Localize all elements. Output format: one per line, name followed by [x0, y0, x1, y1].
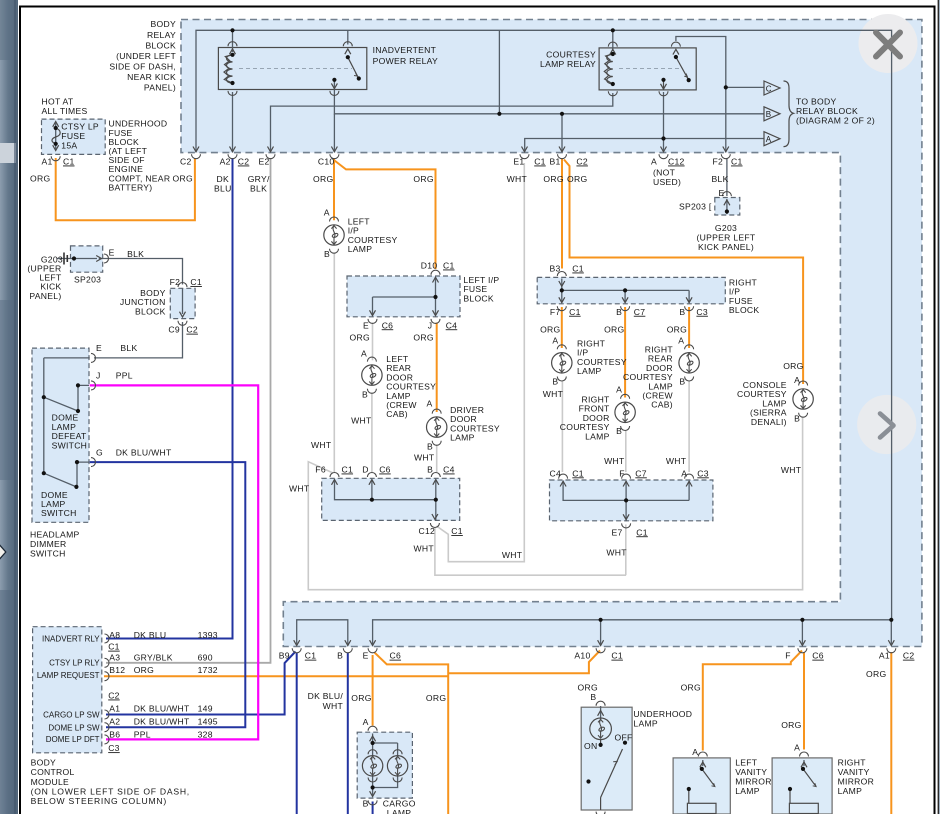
svg-text:C1: C1 [731, 157, 743, 167]
svg-text:C1: C1 [451, 526, 463, 536]
svg-text:B: B [766, 110, 772, 119]
svg-text:ORG: ORG [783, 361, 803, 371]
svg-text:C2: C2 [108, 691, 120, 701]
svg-text:C9: C9 [168, 325, 180, 335]
svg-text:PANEL): PANEL) [144, 82, 176, 92]
svg-text:B: B [679, 377, 685, 387]
svg-text:DOME LP DFT: DOME LP DFT [46, 735, 100, 744]
svg-text:C1: C1 [305, 651, 317, 661]
svg-text:ORG: ORG [413, 333, 433, 343]
svg-text:B: B [362, 390, 368, 400]
svg-text:CONTROL: CONTROL [31, 767, 75, 777]
svg-text:A: A [794, 375, 800, 385]
svg-text:B: B [324, 249, 330, 259]
svg-text:C4: C4 [443, 465, 455, 475]
svg-text:A: A [794, 742, 800, 752]
svg-text:ORG: ORG [313, 174, 333, 184]
svg-text:DENALI): DENALI) [751, 417, 787, 427]
svg-text:C1: C1 [611, 651, 623, 661]
svg-text:F2: F2 [170, 277, 181, 287]
svg-text:B: B [590, 692, 596, 702]
svg-text:D10: D10 [421, 261, 438, 271]
svg-text:CARGO LP SW: CARGO LP SW [43, 711, 100, 720]
svg-text:WHT: WHT [502, 550, 523, 560]
svg-text:B: B [616, 307, 622, 317]
svg-text:A1: A1 [879, 651, 890, 661]
svg-text:C4: C4 [446, 320, 458, 330]
svg-text:1393: 1393 [198, 630, 218, 640]
svg-text:NEAR KICK: NEAR KICK [127, 72, 176, 82]
svg-text:BLK: BLK [127, 249, 144, 259]
svg-text:A1: A1 [42, 157, 53, 167]
svg-text:LAMP RELAY: LAMP RELAY [540, 59, 596, 69]
svg-text:DK BLU: DK BLU [134, 630, 167, 640]
svg-text:A: A [427, 399, 433, 409]
svg-text:WHT: WHT [604, 456, 625, 466]
svg-text:G: G [96, 447, 103, 457]
svg-text:INADVERT RLY: INADVERT RLY [42, 635, 100, 644]
svg-text:SIDE OF DASH,: SIDE OF DASH, [109, 61, 176, 71]
svg-text:E: E [109, 248, 115, 258]
svg-text:C12: C12 [668, 157, 685, 167]
svg-text:328: 328 [198, 730, 213, 740]
svg-text:LAMP: LAMP [633, 719, 658, 729]
svg-text:BODY: BODY [31, 758, 56, 768]
svg-text:ORG: ORG [173, 174, 193, 184]
svg-text:KICK PANEL): KICK PANEL) [698, 242, 754, 252]
svg-text:WHT: WHT [666, 456, 687, 466]
svg-text:B12: B12 [109, 665, 125, 675]
svg-text:LAMP: LAMP [838, 786, 863, 796]
svg-text:ALL TIMES: ALL TIMES [42, 106, 88, 116]
svg-text:C10: C10 [318, 157, 335, 167]
svg-text:B3: B3 [550, 264, 561, 274]
svg-text:E: E [96, 343, 102, 353]
svg-text:DK BLU/: DK BLU/ [308, 691, 344, 701]
svg-text:D: D [362, 465, 369, 475]
svg-text:F2: F2 [713, 157, 724, 167]
svg-text:MIRROR: MIRROR [735, 777, 772, 787]
svg-text:C4: C4 [550, 468, 562, 478]
svg-text:ORG: ORG [667, 324, 687, 334]
svg-text:G203: G203 [715, 223, 737, 233]
svg-text:C6: C6 [379, 465, 391, 475]
svg-text:VANITY: VANITY [735, 767, 767, 777]
svg-text:CAB): CAB) [651, 400, 673, 410]
svg-text:BLOCK: BLOCK [135, 306, 166, 316]
svg-text:LAMP: LAMP [450, 433, 475, 443]
svg-text:ORG: ORG [351, 693, 371, 703]
svg-text:A: A [552, 336, 558, 346]
svg-text:DK BLU/WHT: DK BLU/WHT [134, 704, 190, 714]
svg-text:UNDERHOOD: UNDERHOOD [633, 709, 692, 719]
svg-text:C2: C2 [576, 157, 588, 167]
svg-text:WHT: WHT [351, 416, 372, 426]
svg-text:PPL: PPL [134, 730, 151, 740]
svg-text:C2: C2 [903, 651, 915, 661]
svg-text:F: F [785, 651, 791, 661]
svg-text:B9: B9 [279, 651, 290, 661]
svg-text:(DIAGRAM 2 OF 2): (DIAGRAM 2 OF 2) [796, 116, 875, 126]
svg-text:SWITCH: SWITCH [30, 549, 66, 559]
svg-text:DOME LP SW: DOME LP SW [48, 723, 100, 732]
svg-text:WHT: WHT [323, 701, 344, 711]
svg-text:A2: A2 [220, 157, 231, 167]
svg-text:DK: DK [217, 174, 230, 184]
svg-text:A: A [651, 157, 657, 167]
svg-text:C7: C7 [635, 468, 647, 478]
svg-text:POWER RELAY: POWER RELAY [373, 56, 438, 66]
svg-text:C3: C3 [697, 468, 709, 478]
svg-text:C1: C1 [534, 157, 546, 167]
svg-text:(NOT: (NOT [653, 167, 676, 177]
svg-text:A10: A10 [574, 651, 590, 661]
svg-text:B: B [794, 414, 800, 424]
svg-text:GRY/BLK: GRY/BLK [134, 652, 173, 662]
svg-text:CTSY LP: CTSY LP [61, 122, 99, 132]
svg-text:E2: E2 [259, 157, 270, 167]
svg-text:F7: F7 [550, 307, 561, 317]
svg-text:A: A [766, 135, 772, 144]
svg-text:RELAY BLOCK: RELAY BLOCK [796, 106, 858, 116]
svg-text:C2: C2 [186, 325, 198, 335]
svg-text:BLOCK: BLOCK [145, 41, 176, 51]
svg-text:C1: C1 [443, 261, 455, 271]
svg-text:ORG: ORG [350, 333, 370, 343]
svg-text:C1: C1 [342, 465, 354, 475]
svg-text:GRY/: GRY/ [248, 174, 270, 184]
svg-text:HEADLAMP: HEADLAMP [30, 530, 80, 540]
svg-text:A: A [681, 468, 687, 478]
svg-text:A: A [616, 385, 622, 395]
svg-text:SP203 [: SP203 [ [679, 202, 712, 212]
svg-text:BLU: BLU [214, 184, 232, 194]
svg-text:LEFT: LEFT [735, 757, 758, 767]
svg-text:BLOCK: BLOCK [463, 293, 494, 303]
svg-text:USED): USED) [653, 177, 681, 187]
svg-text:690: 690 [198, 652, 213, 662]
svg-text:WHT: WHT [289, 484, 310, 494]
svg-text:B: B [552, 377, 558, 387]
svg-text:B: B [616, 426, 622, 436]
svg-text:ORG: ORG [30, 174, 50, 184]
svg-text:C1: C1 [63, 157, 75, 167]
svg-text:A2: A2 [109, 716, 120, 726]
svg-text:E1: E1 [513, 157, 524, 167]
svg-text:WHT: WHT [781, 465, 802, 475]
svg-text:F: F [619, 468, 625, 478]
svg-text:ORG: ORG [866, 669, 886, 679]
svg-text:LAMP REQUEST: LAMP REQUEST [37, 671, 100, 680]
svg-text:A: A [361, 349, 367, 359]
svg-text:WHT: WHT [414, 544, 435, 554]
svg-text:C1: C1 [572, 468, 584, 478]
svg-text:WHT: WHT [414, 453, 435, 463]
svg-text:RELAY: RELAY [147, 30, 176, 40]
svg-text:CAB): CAB) [386, 409, 408, 419]
svg-text:ORG: ORG [413, 174, 433, 184]
svg-text:BLOCK: BLOCK [729, 305, 760, 315]
svg-text:ORG: ORG [134, 665, 154, 675]
svg-text:E7: E7 [612, 527, 623, 537]
svg-text:BATTERY): BATTERY) [109, 182, 153, 192]
svg-text:DK BLU/WHT: DK BLU/WHT [116, 447, 172, 457]
svg-text:F6: F6 [315, 465, 326, 475]
svg-text:WHT: WHT [507, 174, 528, 184]
svg-text:LAMP: LAMP [348, 244, 373, 254]
svg-text:PANEL): PANEL) [29, 291, 61, 301]
svg-text:BLK: BLK [250, 184, 267, 194]
svg-text:C6: C6 [812, 651, 824, 661]
svg-text:WHT: WHT [606, 548, 627, 558]
svg-text:C1: C1 [569, 307, 581, 317]
svg-text:C3: C3 [108, 743, 120, 753]
svg-text:B: B [427, 465, 433, 475]
svg-text:DK BLU/WHT: DK BLU/WHT [134, 716, 190, 726]
svg-text:WHT: WHT [311, 440, 332, 450]
svg-text:LAMP: LAMP [735, 786, 760, 796]
svg-text:C6: C6 [382, 320, 394, 330]
svg-text:BELOW STEERING COLUMN): BELOW STEERING COLUMN) [31, 796, 167, 806]
svg-text:BLK: BLK [120, 343, 137, 353]
svg-text:ORG: ORG [604, 324, 624, 334]
svg-text:C7: C7 [634, 307, 646, 317]
svg-text:C: C [766, 84, 772, 93]
svg-text:C1: C1 [572, 264, 584, 274]
svg-text:SWITCH: SWITCH [52, 440, 88, 450]
svg-text:1732: 1732 [198, 665, 218, 675]
svg-text:(UPPER LEFT: (UPPER LEFT [697, 233, 756, 243]
svg-text:A: A [692, 747, 698, 757]
svg-text:MODULE: MODULE [31, 777, 69, 787]
svg-text:BODY: BODY [151, 19, 176, 29]
svg-text:B: B [427, 442, 433, 452]
svg-text:OFF: OFF [615, 733, 633, 743]
svg-text:B: B [337, 651, 343, 661]
svg-text:CTSY LP RLY: CTSY LP RLY [49, 659, 100, 668]
svg-text:PPL: PPL [116, 371, 133, 381]
svg-text:HOT AT: HOT AT [42, 97, 74, 107]
svg-text:VANITY: VANITY [838, 767, 870, 777]
svg-text:ORG: ORG [567, 174, 587, 184]
svg-text:15A: 15A [61, 141, 77, 151]
svg-text:INADVERTENT: INADVERTENT [373, 45, 437, 55]
svg-text:ON: ON [584, 741, 597, 751]
svg-text:MIRROR: MIRROR [838, 777, 875, 787]
svg-text:J: J [428, 320, 433, 330]
svg-text:ORG: ORG [543, 174, 563, 184]
svg-text:E: E [363, 651, 369, 661]
svg-text:(UNDER LEFT: (UNDER LEFT [116, 51, 176, 61]
svg-text:C1: C1 [108, 642, 120, 652]
svg-text:B: B [363, 798, 369, 808]
svg-text:C1: C1 [190, 277, 202, 287]
svg-text:C1: C1 [636, 527, 648, 537]
svg-text:SWITCH: SWITCH [41, 508, 77, 518]
svg-text:LAMP: LAMP [577, 366, 602, 376]
svg-text:COURTESY: COURTESY [546, 50, 596, 60]
svg-text:C6: C6 [390, 651, 402, 661]
svg-text:C2: C2 [238, 157, 250, 167]
svg-text:(ON LOWER LEFT SIDE OF DASH,: (ON LOWER LEFT SIDE OF DASH, [31, 786, 190, 796]
svg-text:ORG: ORG [781, 720, 801, 730]
svg-text:ORG: ORG [426, 693, 446, 703]
svg-text:DIMMER: DIMMER [30, 539, 67, 549]
svg-text:ORG: ORG [540, 324, 560, 334]
svg-text:B6: B6 [109, 730, 120, 740]
svg-text:A3: A3 [109, 652, 120, 662]
svg-text:A: A [678, 336, 684, 346]
svg-text:J: J [96, 371, 101, 381]
svg-text:BLK: BLK [712, 174, 729, 184]
svg-text:TO BODY: TO BODY [796, 97, 836, 107]
svg-text:LAMP: LAMP [585, 431, 610, 441]
svg-text:149: 149 [198, 704, 213, 714]
svg-text:C2: C2 [180, 157, 192, 167]
svg-text:FUSE: FUSE [61, 131, 85, 141]
svg-text:B: B [679, 307, 685, 317]
svg-text:A1: A1 [109, 704, 120, 714]
svg-text:E: E [363, 320, 369, 330]
svg-text:WHT: WHT [543, 389, 564, 399]
svg-text:1495: 1495 [198, 716, 218, 726]
svg-text:A: A [363, 717, 369, 727]
svg-text:C12: C12 [419, 526, 436, 536]
svg-text:ORG: ORG [681, 683, 701, 693]
svg-text:A: A [324, 208, 330, 218]
svg-text:LAMP: LAMP [387, 808, 412, 814]
svg-text:RIGHT: RIGHT [838, 757, 867, 767]
svg-text:C3: C3 [696, 307, 708, 317]
svg-text:E: E [719, 188, 725, 198]
svg-text:SP203: SP203 [74, 274, 101, 284]
svg-text:B1: B1 [550, 157, 561, 167]
svg-text:A8: A8 [109, 630, 120, 640]
